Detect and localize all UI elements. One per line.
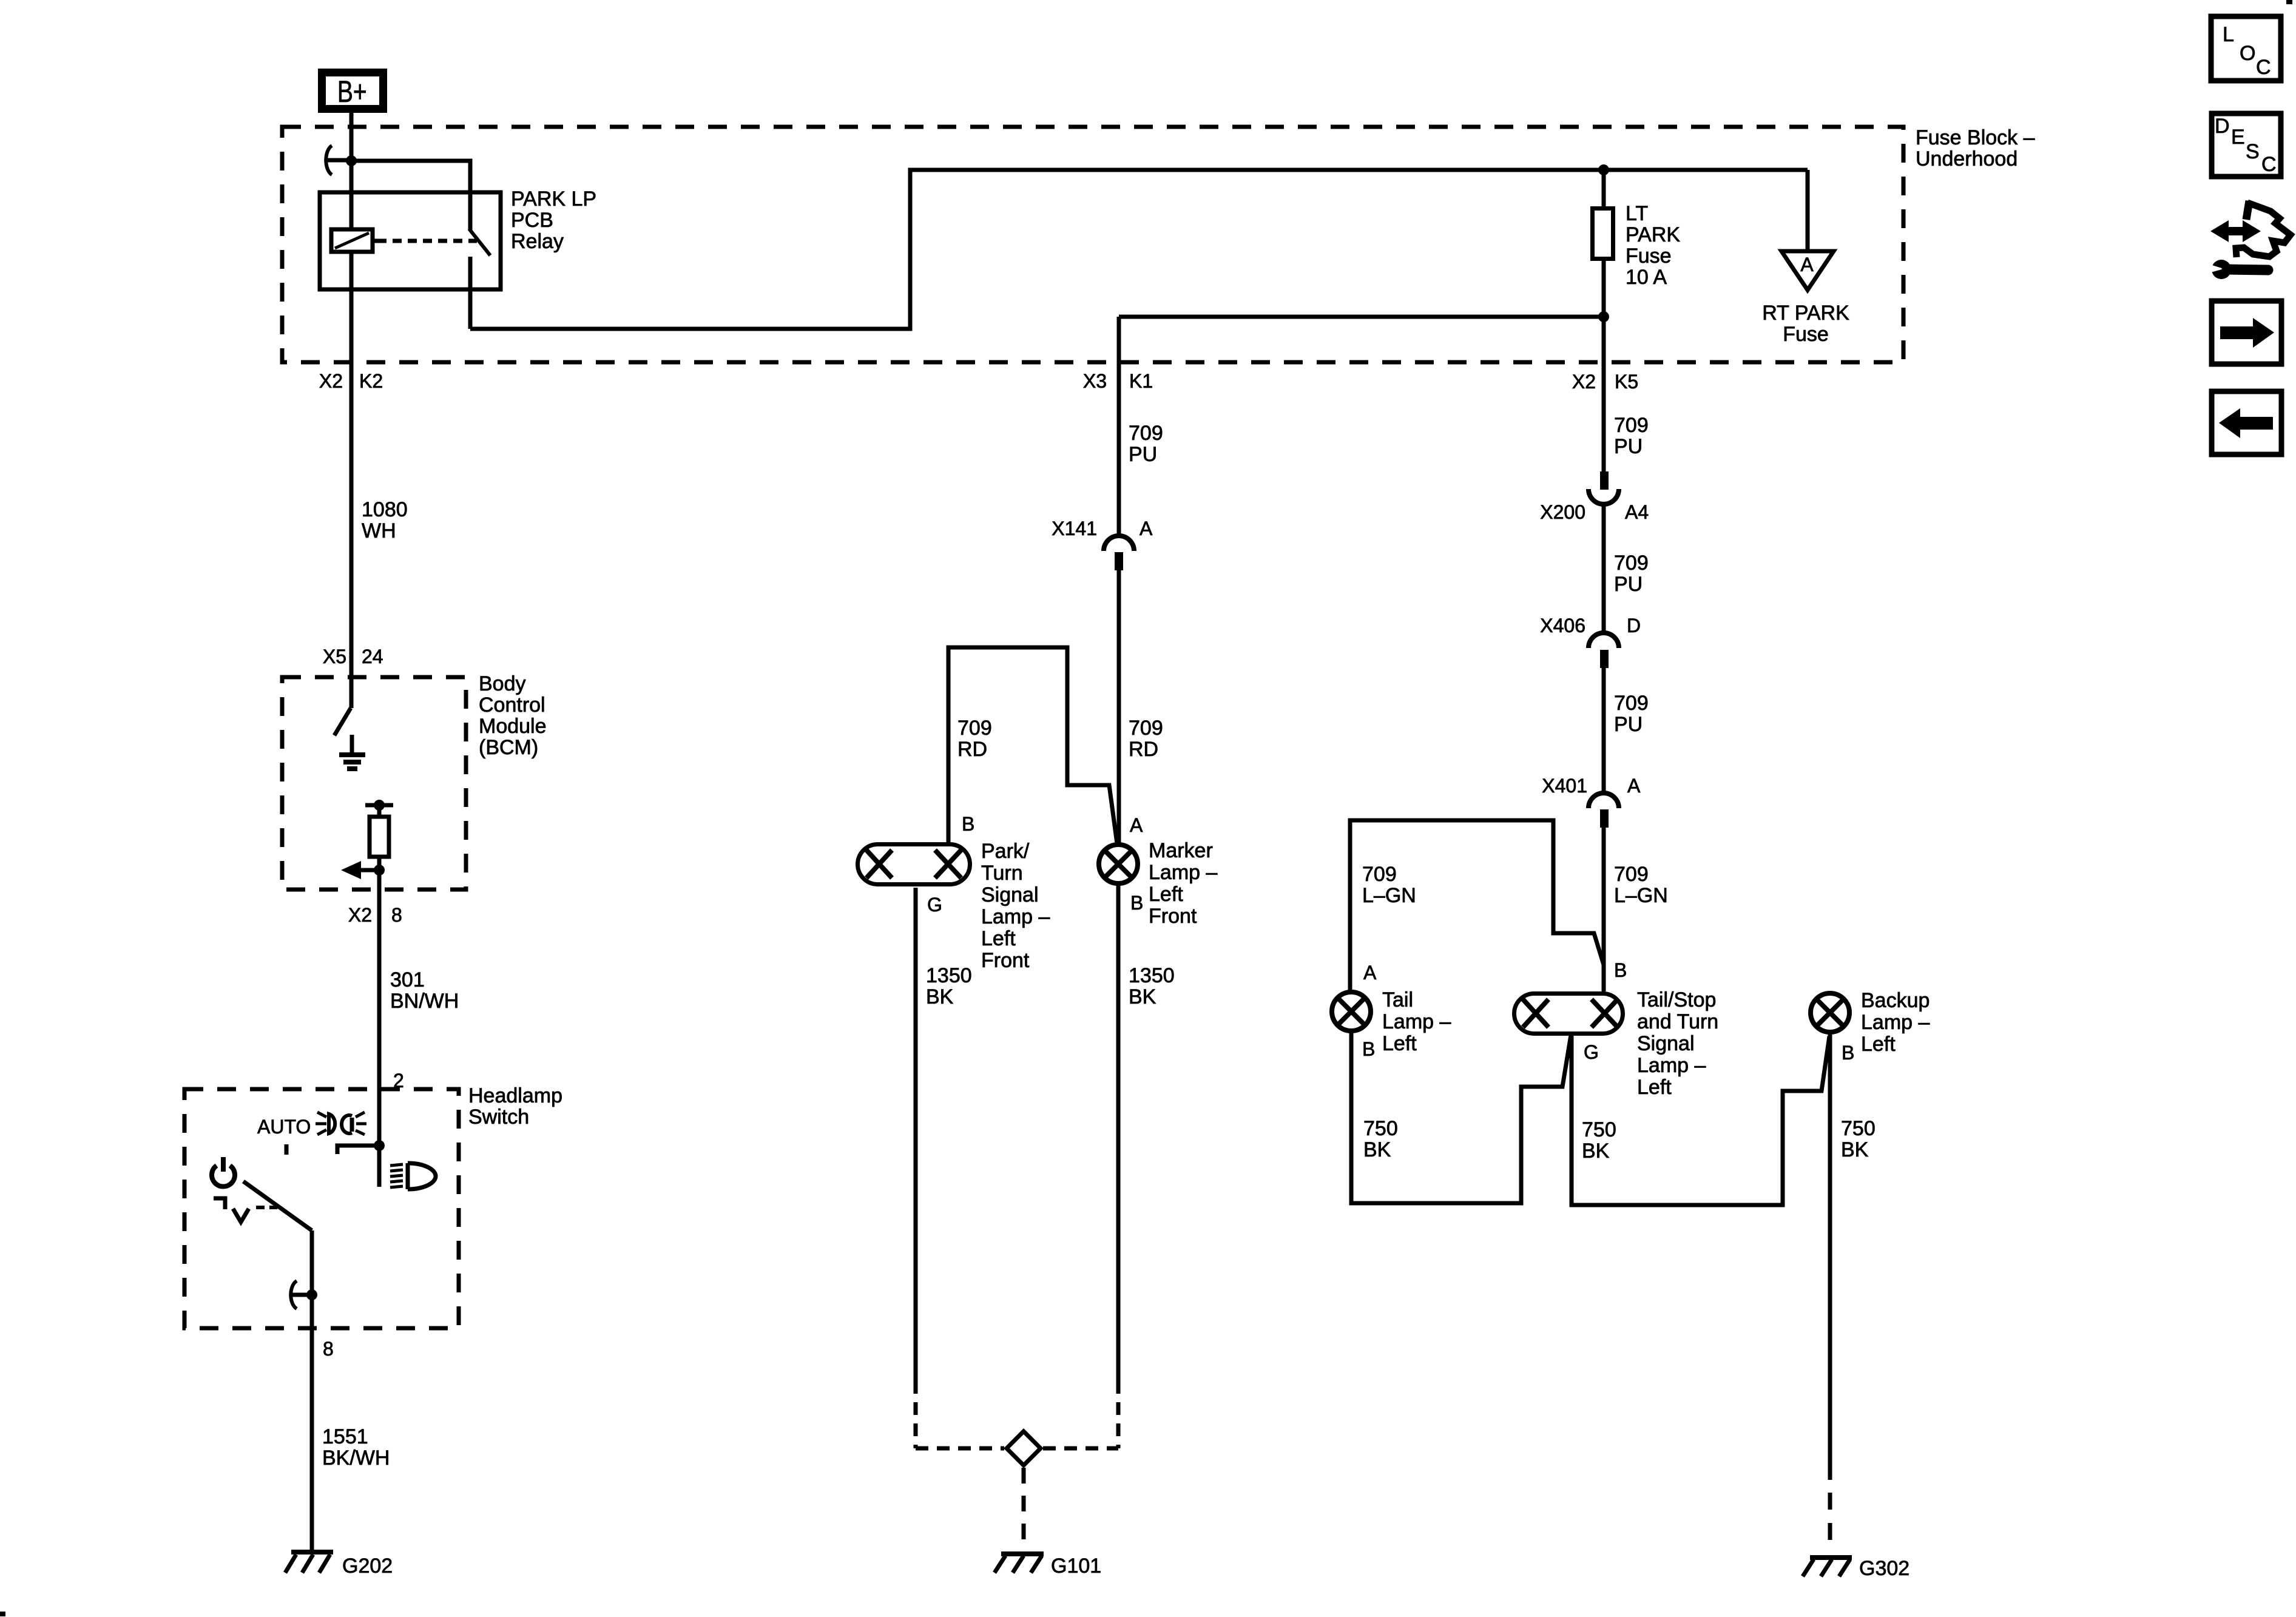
pin label X2 K2 [319,370,383,392]
wire LT fuse to X3 K1 [1119,317,1604,536]
pin label X2 8 [348,904,402,926]
svg-text:PARK LPPCBRelay: PARK LPPCBRelay [511,187,596,253]
relay coil [331,229,377,252]
wire relay coil to BCM [349,252,354,708]
relay switch [469,192,490,329]
svg-text:24: 24 [362,646,383,667]
svg-text:709RD: 709RD [957,717,992,761]
svg-text:709PU: 709PU [1614,414,1649,458]
svg-text:G302: G302 [1859,1557,1909,1580]
svg-text:B: B [1130,892,1143,914]
BCM signal ground [339,735,365,769]
svg-text:709PU: 709PU [1614,692,1649,736]
BCM resistor lead [377,857,382,870]
svg-text:K5: K5 [1615,371,1638,393]
svg-text:750BK: 750BK [1582,1118,1616,1163]
svg-text:LTPARKFuse10 A: LTPARKFuse10 A [1626,202,1680,289]
svg-text:X2: X2 [348,904,372,926]
circuit breaker hook [326,146,349,175]
power symbol B+ [322,73,383,109]
wire X401 to tail stop lamp [1602,828,1606,991]
dashed splice bus [916,1447,1118,1451]
svg-text:TailLamp –Left: TailLamp –Left [1382,988,1451,1055]
svg-text:B: B [962,813,974,835]
svg-text:X401: X401 [1542,775,1587,797]
BCM switch blade [334,708,351,735]
svg-text:K2: K2 [359,370,383,392]
connector X401 [1542,775,1641,828]
sidebar DESC button [2212,113,2281,177]
svg-text:1551BK/WH: 1551BK/WH [322,1425,390,1470]
LT PARK fuse [1593,170,1613,471]
svg-text:G202: G202 [342,1555,393,1578]
dashed wire to G302 [1828,1493,1832,1553]
svg-text:E: E [2231,126,2245,149]
hook headlamp output [291,1281,309,1309]
BCM arrow [341,861,379,879]
svg-text:BodyControlModule(BCM): BodyControlModule(BCM) [479,672,547,759]
wire BCM to headlamp switch [377,870,382,1187]
svg-text:Fuse Block –Underhood: Fuse Block –Underhood [1916,126,2035,170]
junction dot LT fuse output [1598,311,1609,322]
svg-text:Park/TurnSignalLamp –LeftFront: Park/TurnSignalLamp –LeftFront [981,840,1050,972]
svg-text:B: B [1842,1042,1854,1064]
BCM enclosure [282,677,466,890]
sidebar next button [2212,301,2281,364]
connector X200 [1540,471,1649,523]
svg-text:B: B [1362,1038,1375,1060]
svg-text:B: B [1614,959,1627,981]
svg-text:B+: B+ [337,74,367,109]
headlamp switch blade [243,1181,312,1230]
backup lamp left [1811,993,1849,1032]
svg-text:1350BK: 1350BK [1129,964,1175,1008]
auto contact tick [285,1144,289,1155]
page mark top right [2286,0,2292,4]
sidebar LOC button [2211,16,2281,81]
svg-text:AUTO: AUTO [257,1116,311,1138]
junction dot headlamp output [306,1289,317,1300]
BCM sense tap [365,800,393,817]
wire marker B down [1116,883,1121,1381]
svg-text:8: 8 [323,1338,334,1360]
svg-text:301BN/WH: 301BN/WH [390,968,459,1013]
svg-text:A: A [1627,775,1641,797]
svg-text:C: C [2256,56,2271,79]
ground G101 [994,1554,1101,1578]
auto contact branch [337,1146,379,1154]
svg-text:X200: X200 [1540,501,1585,523]
svg-text:709PU: 709PU [1129,422,1163,466]
svg-text:750BK: 750BK [1363,1117,1398,1161]
svg-text:X2: X2 [1572,371,1596,393]
tail lamp left [1332,992,1371,1031]
svg-text:A4: A4 [1625,501,1649,523]
dashed wire splice to G101 [1022,1468,1026,1544]
svg-text:X5: X5 [323,646,346,667]
svg-text:A: A [1140,518,1153,539]
splice diamond [1007,1431,1041,1465]
wire tail stop ground loop [1572,1035,1829,1205]
svg-text:BackupLamp –Left: BackupLamp –Left [1861,989,1930,1056]
svg-text:MarkerLamp –LeftFront: MarkerLamp –LeftFront [1149,839,1217,928]
svg-text:1350BK: 1350BK [926,964,972,1008]
wire blade to ground [310,1230,314,1552]
fuse block underhood enclosure [282,127,1903,362]
svg-text:Tail/Stopand TurnSignalLamp –L: Tail/Stopand TurnSignalLamp –Left [1637,988,1718,1099]
svg-text:709L–GN: 709L–GN [1362,863,1416,907]
svg-text:G101: G101 [1051,1555,1101,1578]
wire X406 to X401 [1602,668,1606,794]
wire park turn G down [914,888,918,1381]
auto headlamp icon [316,1112,366,1135]
svg-text:K1: K1 [1129,370,1153,392]
svg-text:A: A [1130,814,1143,836]
svg-text:C: C [2261,153,2277,176]
svg-text:O: O [2240,42,2255,65]
svg-text:709PU: 709PU [1614,552,1649,596]
junction dot LT feed [1598,164,1609,175]
tail stop and turn signal lamp left [1514,994,1623,1034]
junction dot B+ [346,155,357,166]
power off icon [212,1157,235,1186]
wire X200 to X406 [1602,503,1606,633]
svg-text:750BK: 750BK [1841,1117,1876,1161]
wire relay output to fuses [470,170,1808,329]
svg-text:L: L [2223,23,2234,46]
svg-text:G: G [927,894,942,916]
connector X141 [1052,518,1153,570]
dashed wire to splice left [914,1381,918,1448]
svg-text:S: S [2246,140,2260,163]
svg-text:X406: X406 [1540,615,1585,636]
dashed wire to splice right [1116,1381,1121,1448]
ground G202 [285,1552,393,1578]
svg-text:A: A [1363,962,1377,984]
BCM resistor [370,817,389,857]
ground G302 [1803,1557,1909,1580]
wire branch tail lamp [1350,820,1604,991]
svg-text:709L–GN: 709L–GN [1614,863,1668,907]
wire backup lamp to ground [1828,1032,1832,1480]
svg-text:8: 8 [391,904,402,926]
connector X406 [1540,615,1641,668]
svg-text:X2: X2 [319,370,343,392]
page mark bottom left [0,1612,5,1616]
headlamp on icon [390,1163,436,1189]
wire branch park turn lamp [948,647,1117,843]
svg-text:A: A [1800,254,1814,275]
svg-text:D: D [2215,115,2230,138]
junction dot BCM output [374,865,385,876]
sidebar back button [2212,391,2281,454]
junction dot headlamp input [374,1140,385,1151]
svg-text:G: G [1584,1041,1599,1063]
spring return marks [214,1198,277,1222]
pin label X3 K1 [1083,370,1153,392]
park turn signal lamp left front [858,845,970,885]
relay linkage dashed [377,239,477,243]
pin label X2 K5 [1572,371,1638,393]
svg-text:D: D [1627,615,1641,636]
headlamp switch enclosure [184,1089,459,1328]
svg-text:X141: X141 [1052,518,1097,539]
wire tail lamp ground loop [1351,1031,1571,1203]
pin label X5 24 [323,646,383,667]
wire junction to relay switch [351,161,470,192]
wire X141 to marker lamp [1117,570,1121,846]
svg-text:709RD: 709RD [1129,717,1163,761]
svg-text:HeadlampSwitch: HeadlampSwitch [468,1084,562,1129]
sidebar repair icon [2206,201,2291,279]
svg-text:RT PARKFuse: RT PARKFuse [1762,302,1849,346]
wire B+ into fuse block [349,113,354,229]
relay PARK LP PCB box [320,192,501,289]
marker lamp left front [1099,845,1138,883]
svg-text:X3: X3 [1083,370,1107,392]
RT PARK fuse [1781,170,1834,290]
svg-text:1080WH: 1080WH [362,498,408,542]
